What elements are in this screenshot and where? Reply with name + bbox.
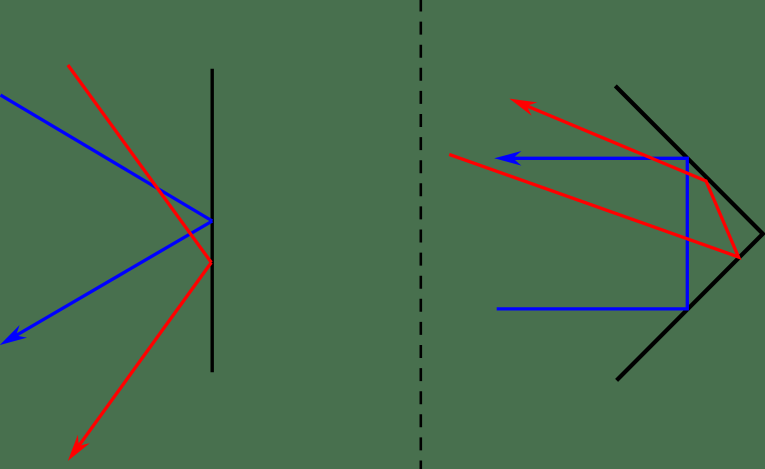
axis dashed line [419, 0, 422, 469]
red arrowhead (left) [68, 435, 90, 461]
red arrowhead (right) [509, 99, 537, 116]
blue ray path (right) [497, 158, 688, 309]
red reflected ray (left) [79, 263, 212, 446]
red incident ray (left) [68, 65, 211, 263]
corner reflector mirrors (right) [615, 86, 763, 381]
blue incident ray (left) [1, 95, 213, 221]
red ray path (right) [449, 106, 738, 257]
blue arrowhead (left) [0, 325, 27, 345]
blue arrowhead (right) [494, 151, 521, 166]
blue reflected ray (left) [16, 221, 212, 336]
plane mirror (left) [210, 69, 213, 373]
